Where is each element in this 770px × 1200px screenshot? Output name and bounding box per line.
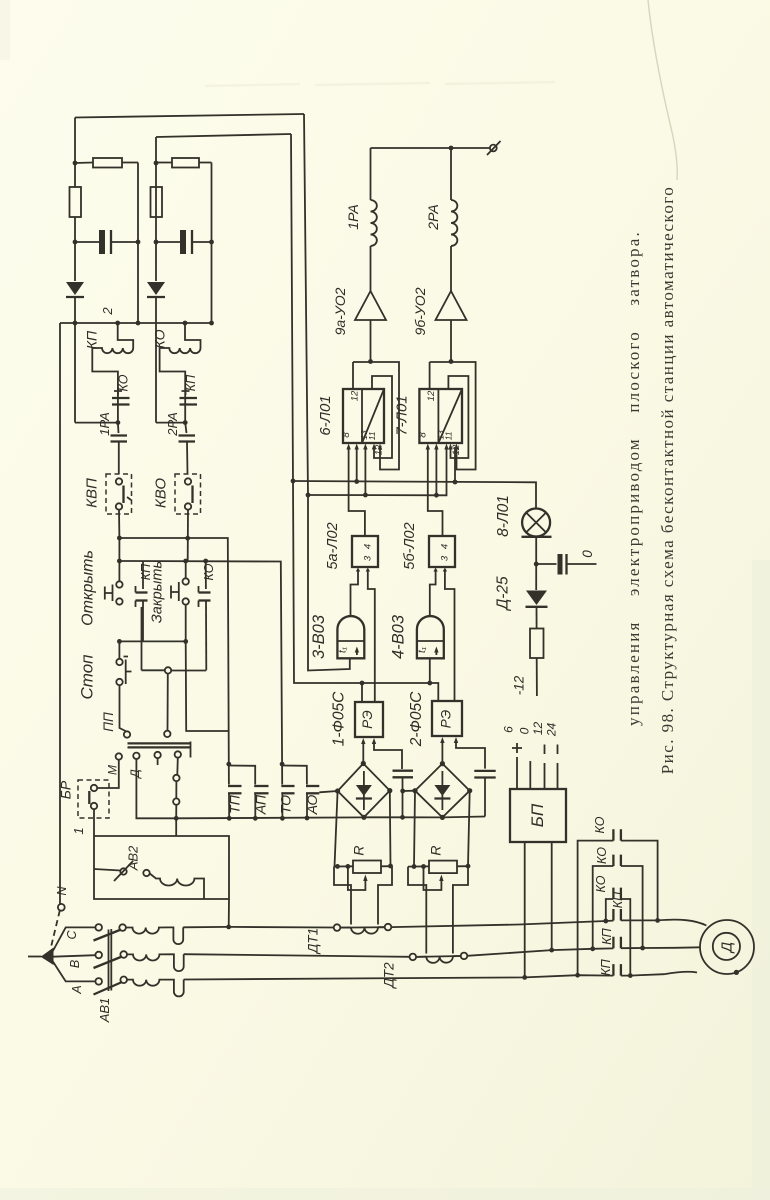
- wire bus 818 continuation to cap1: [364, 816, 403, 818]
- capacitor 2RA: [185, 423, 186, 433]
- svg-text:8: 8: [418, 432, 429, 438]
- wire y=148 top: [371, 147, 491, 149]
- rectifier bridge 1: [338, 764, 390, 818]
- wire steps down to DT1: [334, 867, 351, 925]
- inductor phase C: [126, 927, 183, 944]
- wire AO lower plate to bridge1 left vertex: [319, 791, 337, 792]
- svg-text:Д: Д: [720, 942, 736, 954]
- terminal N: [58, 904, 65, 911]
- svg-text:БП: БП: [528, 803, 547, 827]
- contact AO: [282, 766, 307, 785]
- contact KO bridge 3 (C to A): [613, 888, 621, 899]
- svg-text:3-В03: 3-В03: [310, 614, 328, 659]
- svg-text:М: М: [106, 765, 120, 775]
- svg-text:РЭ: РЭ: [360, 710, 375, 728]
- edge shading: [752, 560, 770, 1200]
- svg-text:КО: КО: [593, 816, 607, 833]
- block RE 1: [355, 702, 383, 737]
- switch AV1 phase A: [95, 978, 102, 985]
- svg-text:ТП: ТП: [227, 794, 243, 814]
- svg-text:0: 0: [518, 727, 532, 734]
- wire phase fan: [53, 927, 96, 951]
- wire bridge1 left leg down: [335, 791, 338, 867]
- input arrows: [433, 568, 447, 572]
- wire bypass y=422.6 branch2: [156, 422, 185, 424]
- svg-text:9б-УО2: 9б-УО2: [412, 287, 428, 335]
- node amp1 out: [368, 359, 373, 364]
- svg-text:КО: КО: [202, 563, 216, 580]
- coil KP (branch1): [118, 323, 134, 348]
- input arrows: [428, 447, 437, 458]
- wire 4-V03 bottom to bus A: [429, 658, 431, 683]
- svg-text:2РА: 2РА: [165, 412, 180, 437]
- svg-text:1: 1: [71, 827, 86, 834]
- wire KVP to node y=538: [118, 510, 120, 538]
- wire feedback loop outer: [353, 362, 399, 470]
- wire AV2 right edge down to phase C: [228, 899, 230, 927]
- wire KVO to node y=561: [187, 510, 189, 561]
- capacitor C branch1 (polarized): [75, 241, 99, 243]
- contact KO bridge 1 (A to C): [613, 829, 621, 840]
- svg-text:БР: БР: [58, 780, 74, 799]
- wire left branch vertical x=75 (top to y=422): [74, 118, 76, 188]
- svg-text:Открыть: Открыть: [80, 550, 97, 626]
- contact KO seal-in: [205, 561, 207, 589]
- svg-text:КП: КП: [599, 958, 613, 975]
- svg-text:12: 12: [350, 390, 361, 401]
- svg-text:5б-Л02: 5б-Л02: [402, 522, 418, 569]
- svg-text:6: 6: [502, 726, 516, 733]
- wire lamp to node: [535, 537, 537, 590]
- wire feedback loop inner: [372, 376, 392, 458]
- wire B into motor: [675, 946, 700, 949]
- block BP: [510, 789, 566, 842]
- svg-text:0: 0: [580, 550, 595, 558]
- svg-text:АВ1: АВ1: [97, 998, 112, 1024]
- svg-text:2РА: 2РА: [425, 204, 441, 230]
- wire to -12 terminal: [536, 658, 538, 696]
- resistor R horizontal branch1: [75, 162, 93, 165]
- svg-text:ДТ1: ДТ1: [306, 928, 321, 955]
- wire A into motor: [664, 972, 697, 974]
- svg-text:КО: КО: [152, 329, 168, 348]
- wire phase C to motor: [519, 921, 613, 925]
- wire inner rail from second line: [291, 134, 438, 701]
- wire C into motor: [658, 920, 707, 926]
- svg-text:3: 3: [363, 555, 374, 561]
- contact KP inline phase C: [613, 909, 621, 921]
- connector pair circles: [173, 775, 179, 781]
- wire Zakryt bottom to interlock feed: [186, 641, 229, 731]
- svg-text:4: 4: [440, 544, 451, 549]
- wire BP to phase B: [551, 842, 553, 950]
- svg-text:11: 11: [367, 431, 377, 440]
- wire branch1 right vertical x=138: [137, 163, 139, 324]
- inductor phase A: [127, 980, 184, 997]
- potentiometer R1: [334, 865, 353, 867]
- capacitor C1: [393, 771, 414, 778]
- wire M to BR: [97, 760, 119, 788]
- amplifier 9b-UO2: [436, 291, 467, 320]
- pushbutton Stop: [118, 641, 120, 659]
- coil 1RA: [370, 148, 372, 200]
- svg-text:КО: КО: [595, 847, 609, 864]
- svg-text:R: R: [428, 845, 444, 855]
- svg-text:1РА: 1РА: [345, 204, 361, 229]
- svg-text:управления электроприводом п: управления электроприводом плоского затв…: [624, 230, 643, 726]
- svg-text:АВ2: АВ2: [126, 845, 141, 871]
- svg-text:N: N: [55, 886, 69, 896]
- svg-text:ДТ2: ДТ2: [382, 962, 397, 990]
- svg-text:Закрыть: Закрыть: [150, 561, 166, 623]
- svg-text:КО: КО: [117, 374, 131, 391]
- input arrows into RE1: [362, 742, 364, 764]
- wire top outer line: [75, 114, 304, 118]
- bus2 y=495: [308, 455, 447, 495]
- svg-text:АО: АО: [304, 795, 320, 816]
- resistor: [530, 629, 544, 659]
- wire BP to phase A: [524, 842, 526, 977]
- switch AV1 phase C: [95, 924, 102, 931]
- wire bus y=323: [60, 322, 212, 324]
- terminal +6: [516, 757, 518, 789]
- svg-text:1-Ф05С: 1-Ф05С: [331, 691, 348, 746]
- node TO/AO feed: [280, 762, 285, 767]
- svg-text:КВП: КВП: [84, 478, 101, 508]
- terminal 12: [544, 745, 546, 790]
- block AV2 box: [94, 836, 229, 899]
- terminal with slash: [490, 145, 497, 152]
- svg-text:Рис. 98. Структурная схема б: Рис. 98. Структурная схема бесконтактной…: [658, 186, 677, 774]
- svg-text:12: 12: [374, 444, 385, 455]
- svg-text:4: 4: [363, 544, 374, 549]
- svg-text:9а-УО2: 9а-УО2: [332, 287, 348, 335]
- contact KP seal-in: [142, 561, 144, 589]
- capacitor 0 branch: [536, 563, 556, 565]
- coil AV2: [150, 874, 204, 900]
- svg-text:КО: КО: [594, 875, 608, 892]
- contact TO: [281, 764, 283, 784]
- svg-text:12: 12: [531, 722, 545, 736]
- svg-text:КП: КП: [600, 927, 614, 944]
- wire riser1 to bridge2 left vertex: [403, 790, 415, 792]
- svg-text:1РА: 1РА: [97, 412, 112, 436]
- diode inside bridge1: [363, 771, 365, 810]
- resistor R vertical branch2: [151, 187, 163, 217]
- inductor phase B: [127, 954, 184, 971]
- wire outer rail from top line: [304, 114, 350, 671]
- wire bridge2 right leg down: [468, 791, 470, 866]
- diode inside bridge2: [441, 771, 443, 810]
- wire bus A tap to RE1: [361, 683, 363, 702]
- feeder arrow: [41, 948, 54, 966]
- svg-text:КП: КП: [84, 330, 100, 349]
- diode D-25: [526, 591, 547, 606]
- svg-text:7-Л01: 7-Л01: [394, 395, 411, 435]
- svg-text:Стоп: Стоп: [78, 654, 97, 700]
- contact KO bridge 2 (B to B): [613, 855, 621, 866]
- svg-text:А: А: [70, 985, 84, 994]
- wire common bus y=818: [176, 816, 364, 819]
- wire bus 818 to cap2 riser: [403, 816, 486, 819]
- wiper R1: [348, 866, 366, 890]
- breaker AV2: [120, 868, 126, 874]
- svg-text:t₁: t₁: [338, 647, 349, 653]
- wire x=119.4 junction between: [118, 538, 120, 582]
- wire bridge1 right leg down: [389, 791, 392, 866]
- svg-text:С: С: [65, 930, 79, 940]
- node branch2 top: [154, 161, 159, 166]
- svg-text:11: 11: [444, 431, 454, 440]
- svg-text:КВО: КВО: [153, 478, 170, 509]
- svg-text:t₁: t₁: [417, 647, 428, 653]
- wire bypass y=422.6 branch1: [75, 422, 118, 424]
- wire branch2 vertical x=156: [155, 137, 157, 281]
- svg-text:Д-25: Д-25: [495, 576, 512, 612]
- coil KO (branch2): [185, 323, 201, 348]
- svg-text:ПП: ПП: [101, 712, 116, 732]
- capacitor 1RA: [117, 423, 120, 433]
- wire feedback loop outer: [430, 362, 476, 470]
- capacitor C branch2 (polarized): [156, 241, 180, 243]
- amplifier 9a-UO2: [355, 291, 386, 320]
- svg-text:РЭ: РЭ: [439, 710, 454, 728]
- wire y=670 with connector circle: [142, 669, 207, 671]
- terminal 24: [557, 745, 559, 790]
- block RE 2: [432, 701, 462, 736]
- svg-text:2-Ф05С: 2-Ф05С: [408, 691, 425, 747]
- wire top inner line: [156, 134, 291, 137]
- svg-text:R: R: [351, 845, 367, 855]
- wire y=561 control bus: [119, 561, 282, 764]
- wiper R2: [424, 867, 442, 891]
- linkage AV1: [109, 929, 112, 991]
- wire feedback loop inner: [448, 376, 468, 458]
- contact KP inline phase A: [613, 964, 621, 976]
- svg-text:3: 3: [440, 555, 451, 561]
- svg-text:ТО: ТО: [278, 795, 294, 814]
- wire D to bus818: [136, 759, 176, 818]
- faint print-through marks: [205, 82, 555, 86]
- svg-text:6-Л01: 6-Л01: [317, 395, 334, 435]
- svg-text:КП: КП: [184, 374, 198, 391]
- terminal 0: [529, 761, 531, 789]
- potentiometer R2: [408, 865, 429, 867]
- wire y=641.4: [119, 640, 185, 642]
- node branch2 cap left: [154, 240, 159, 245]
- relay BR dashed: [78, 780, 109, 818]
- wire dashed N to arrow: [51, 911, 60, 948]
- wire PP pole stubs: [157, 758, 159, 765]
- wire phase A line: [184, 975, 614, 979]
- resistor R vertical branch1: [70, 187, 82, 217]
- svg-text:12: 12: [426, 390, 437, 401]
- capacitor C2: [474, 771, 495, 778]
- contact KO polarized (branch1): [112, 397, 130, 399]
- node amp2 out: [449, 359, 454, 364]
- wire bridge2 left leg down: [414, 791, 415, 867]
- terminal 1: [93, 809, 95, 836]
- coil 2RA: [450, 148, 452, 200]
- wire y=538 to interlock feed: [119, 538, 228, 764]
- wire branch2 right vertical x=211.5: [211, 163, 213, 324]
- bus1 y=481 to lamp: [293, 481, 536, 508]
- contact KP inline phase B: [613, 937, 621, 949]
- svg-text:2: 2: [100, 307, 115, 316]
- svg-text:8-Л01: 8-Л01: [495, 495, 512, 537]
- stems to buses: [349, 458, 365, 536]
- stems to buses: [428, 458, 443, 536]
- wire diode to resistor: [536, 607, 538, 629]
- input arrows into RE2: [441, 741, 443, 764]
- diode VD branch1: [66, 282, 84, 295]
- svg-text:Д: Д: [128, 769, 142, 780]
- pushbutton Otkryt: [116, 581, 122, 587]
- svg-text:АП: АП: [253, 794, 269, 815]
- limit switch KVP: [106, 474, 132, 514]
- svg-text:4-В03: 4-В03: [390, 614, 408, 659]
- wire steps down to DT2: [408, 867, 426, 954]
- diode VD branch2: [147, 282, 165, 295]
- wire left long bus x=60 down to N: [59, 323, 61, 904]
- page crease line top right: [648, 0, 677, 180]
- svg-text:-12: -12: [512, 675, 527, 695]
- node TP/AP feed: [226, 762, 231, 767]
- limit switch KVO: [175, 474, 201, 514]
- contact KP polarized (branch2): [180, 397, 198, 399]
- wire connector down to PP: [167, 674, 169, 731]
- contact AP: [229, 766, 255, 785]
- resistor R horizontal branch2: [156, 162, 172, 164]
- input arrows: [356, 568, 370, 572]
- svg-text:8: 8: [341, 432, 352, 438]
- wire phase C line: [183, 926, 334, 929]
- pushbutton Zakryt: [185, 561, 187, 579]
- wire bus818 down to AV2 box: [175, 818, 177, 836]
- wire phase B line: [184, 954, 410, 957]
- svg-text:5а-Л02: 5а-Л02: [325, 522, 341, 569]
- input arrows: [349, 447, 366, 458]
- node branch1 cap left: [73, 240, 78, 245]
- switch AV1 phase B: [95, 952, 102, 959]
- contact TP: [228, 764, 230, 784]
- svg-text:24: 24: [545, 723, 559, 738]
- rectifier bridge 2: [415, 764, 470, 818]
- node branch1 top: [73, 161, 78, 166]
- svg-text:В: В: [68, 960, 82, 968]
- lamp 8-L01: [522, 509, 550, 537]
